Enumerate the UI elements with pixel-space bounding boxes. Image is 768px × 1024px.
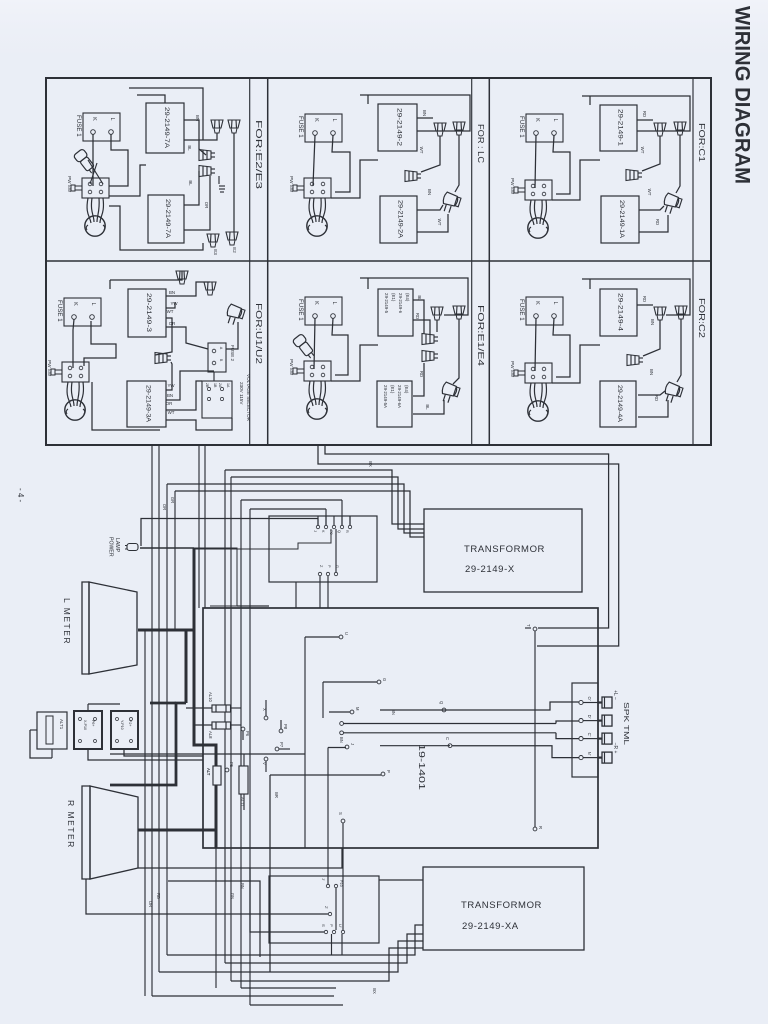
svg-text:1B: 1B xyxy=(213,383,217,388)
svg-text:29-2149-1A: 29-2149-1A xyxy=(618,200,625,239)
svg-text:29-2149-2: 29-2149-2 xyxy=(396,108,403,147)
svg-text:OR: OR xyxy=(166,401,173,406)
svg-text:X-P10: X-P10 xyxy=(83,720,87,730)
svg-text:BN: BN xyxy=(427,189,432,195)
svg-text:BX: BX xyxy=(372,988,377,994)
svg-text:U': U' xyxy=(338,924,342,928)
svg-text:K: K xyxy=(72,302,78,306)
svg-text:T: T xyxy=(526,624,531,627)
svg-text:TRANSFORMOR: TRANSFORMOR xyxy=(464,544,545,555)
svg-text:29-2149-XA: 29-2149-XA xyxy=(462,921,519,932)
svg-text:K: K xyxy=(91,117,97,121)
svg-text:(E4): (E4) xyxy=(405,293,410,302)
svg-text:L: L xyxy=(331,301,337,304)
svg-text:(E1): (E1) xyxy=(391,293,396,302)
svg-text:WT: WT xyxy=(437,219,442,226)
svg-text:L: L xyxy=(109,117,115,120)
svg-text:P8: P8 xyxy=(283,724,288,730)
svg-text:FOR:U1/U2: FOR:U1/U2 xyxy=(254,303,264,364)
svg-text:OR: OR xyxy=(162,504,167,510)
svg-text:K: K xyxy=(313,118,319,122)
svg-text:FOR:C1: FOR:C1 xyxy=(697,123,707,162)
svg-text:FOR : LC: FOR : LC xyxy=(476,124,486,163)
svg-text:29-2149-3: 29-2149-3 xyxy=(145,293,152,333)
svg-text:+L −: +L − xyxy=(612,690,618,700)
svg-text:2B: 2B xyxy=(205,383,209,388)
svg-text:29-2149-3A: 29-2149-3A xyxy=(145,385,152,423)
svg-text:RD: RD xyxy=(655,219,660,225)
svg-text:BL: BL xyxy=(425,404,430,410)
svg-text:J: J xyxy=(350,743,355,745)
svg-text:1A: 1A xyxy=(226,383,230,388)
svg-text:L: L xyxy=(331,118,337,121)
svg-text:E2: E2 xyxy=(232,247,237,253)
svg-text:WT: WT xyxy=(640,147,645,154)
svg-text:M: M xyxy=(355,707,360,711)
svg-text:RD: RD xyxy=(415,313,420,319)
svg-text:P2+: P2+ xyxy=(128,720,132,727)
svg-text:PW SW: PW SW xyxy=(510,361,515,378)
svg-text:K: K xyxy=(313,301,319,305)
svg-text:29-2149-7A: 29-2149-7A xyxy=(164,199,171,239)
svg-text:PW SW: PW SW xyxy=(67,176,72,193)
svg-text:BN: BN xyxy=(422,110,427,116)
svg-text:GR: GR xyxy=(170,497,175,503)
svg-text:PW SW: PW SW xyxy=(289,176,294,193)
svg-text:LAMP: LAMP xyxy=(114,538,120,553)
svg-text:WT: WT xyxy=(168,410,175,415)
svg-text:230V 115V: 230V 115V xyxy=(239,382,244,405)
svg-text:POWER: POWER xyxy=(108,537,114,557)
svg-text:2A: 2A xyxy=(218,383,222,388)
svg-text:OR: OR xyxy=(169,321,176,326)
svg-text:BN: BN xyxy=(339,737,344,743)
svg-text:OR: OR xyxy=(204,202,209,209)
svg-text:RD: RD xyxy=(419,371,424,377)
svg-text:YW: YW xyxy=(167,383,175,388)
svg-text:ALT1: ALT1 xyxy=(59,719,64,730)
svg-text:19-1401: 19-1401 xyxy=(417,744,426,791)
svg-text:WIRING DIAGRAM: WIRING DIAGRAM xyxy=(731,6,755,184)
svg-text:L: L xyxy=(552,118,558,121)
svg-text:- 4 -: - 4 - xyxy=(16,488,25,503)
svg-text:PW SW: PW SW xyxy=(47,360,52,377)
svg-text:R: R xyxy=(345,530,349,533)
svg-text:D': D' xyxy=(587,715,592,719)
svg-text:BR: BR xyxy=(274,792,279,798)
svg-text:RD: RD xyxy=(156,893,161,899)
svg-text:P': P' xyxy=(329,924,333,928)
svg-text:BN: BN xyxy=(649,369,654,375)
svg-text:WT: WT xyxy=(419,147,424,154)
svg-text:29-2149-6: 29-2149-6 xyxy=(398,293,403,314)
svg-text:FUSE 2: FUSE 2 xyxy=(230,345,235,362)
svg-text:BL: BL xyxy=(188,180,193,186)
svg-text:29-2149-4: 29-2149-4 xyxy=(617,293,624,332)
svg-text:FOR:C2: FOR:C2 xyxy=(697,298,707,338)
svg-text:A: A xyxy=(219,347,223,350)
svg-text:S: S xyxy=(338,812,343,815)
svg-text:(E1): (E1) xyxy=(390,385,395,394)
svg-text:L: L xyxy=(552,301,558,304)
svg-text:U: U xyxy=(344,632,349,635)
svg-text:FUSE 1: FUSE 1 xyxy=(518,116,525,138)
svg-text:Z': Z' xyxy=(324,906,328,909)
svg-text:WT: WT xyxy=(167,309,174,314)
svg-text:G: G xyxy=(382,678,387,681)
svg-text:−R +: −R + xyxy=(612,743,618,754)
svg-text:L: L xyxy=(90,302,96,305)
svg-text:BN: BN xyxy=(240,883,245,889)
svg-text:Q: Q xyxy=(337,530,341,533)
svg-text:BN: BN xyxy=(195,115,200,121)
svg-text:SPK TML: SPK TML xyxy=(622,702,629,745)
svg-text:C: C xyxy=(445,737,450,740)
svg-text:J: J xyxy=(313,530,317,532)
svg-text:RD: RD xyxy=(642,111,647,117)
svg-text:BL: BL xyxy=(417,295,422,301)
svg-text:29-2149-5A: 29-2149-5A xyxy=(383,385,388,408)
svg-text:J': J' xyxy=(321,878,325,881)
svg-text:29-2149-7A: 29-2149-7A xyxy=(163,107,170,149)
svg-text:E3: E3 xyxy=(213,249,218,255)
svg-text:S': S' xyxy=(321,924,325,928)
svg-text:29-2149-2A: 29-2149-2A xyxy=(397,200,404,239)
svg-text:OR: OR xyxy=(148,901,153,907)
svg-text:29-2149-1: 29-2149-1 xyxy=(617,109,624,147)
svg-text:PW SW: PW SW xyxy=(510,178,515,195)
svg-text:WT: WT xyxy=(647,189,652,196)
svg-text:K: K xyxy=(534,118,540,122)
svg-text:R: R xyxy=(538,826,543,829)
svg-text:R METER: R METER xyxy=(66,800,76,849)
svg-text:RD: RD xyxy=(642,296,647,302)
svg-text:29-2149-6A: 29-2149-6A xyxy=(397,385,402,408)
svg-text:VOLTAGE SELECTOR: VOLTAGE SELECTOR xyxy=(246,374,251,422)
svg-text:BX: BX xyxy=(368,461,373,467)
svg-text:AL8: AL8 xyxy=(208,731,213,739)
svg-text:BL: BL xyxy=(187,145,192,151)
svg-text:FUSE 1: FUSE 1 xyxy=(56,300,63,322)
svg-text:FOR:E2/E3: FOR:E2/E3 xyxy=(254,120,264,189)
svg-text:O': O' xyxy=(587,697,592,701)
svg-text:P6+: P6+ xyxy=(91,720,95,727)
svg-text:P: P xyxy=(386,770,391,773)
svg-text:P10: P10 xyxy=(339,880,343,887)
svg-text:BN: BN xyxy=(169,290,175,295)
svg-text:AL10: AL10 xyxy=(208,692,213,702)
svg-text:BN: BN xyxy=(167,393,173,398)
svg-text:P6: P6 xyxy=(245,731,250,737)
svg-text:FOR:E1/E4: FOR:E1/E4 xyxy=(476,305,486,366)
svg-text:K: K xyxy=(534,301,540,305)
svg-text:C': C' xyxy=(587,733,592,737)
svg-text:FUSE 1: FUSE 1 xyxy=(297,116,304,138)
svg-text:GN: GN xyxy=(230,893,235,899)
svg-text:RD: RD xyxy=(654,395,659,401)
svg-text:TRANSFORMOR: TRANSFORMOR xyxy=(461,900,542,911)
svg-text:FUSE 1: FUSE 1 xyxy=(518,299,525,321)
svg-text:29-2149-X: 29-2149-X xyxy=(465,564,515,575)
svg-text:P7: P7 xyxy=(279,742,284,748)
svg-text:YW: YW xyxy=(170,301,178,306)
svg-text:29-2149-5: 29-2149-5 xyxy=(384,293,389,314)
svg-text:29-2149-4A: 29-2149-4A xyxy=(616,385,623,423)
svg-text:FUSE 1: FUSE 1 xyxy=(297,299,304,321)
svg-text:Y-P10: Y-P10 xyxy=(120,720,124,730)
svg-text:ALT: ALT xyxy=(206,768,211,776)
svg-text:PW SW: PW SW xyxy=(289,359,294,376)
svg-text:(E4): (E4) xyxy=(404,385,409,394)
svg-text:N': N' xyxy=(587,752,592,756)
svg-text:BN: BN xyxy=(650,319,655,325)
svg-text:L METER: L METER xyxy=(62,598,72,645)
svg-text:FUSE 1: FUSE 1 xyxy=(75,115,82,137)
svg-text:B: B xyxy=(219,359,223,362)
